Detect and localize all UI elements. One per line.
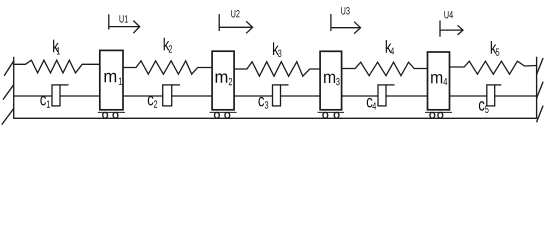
label m2 <box>216 73 233 85</box>
label u2 <box>231 10 239 17</box>
wheel <box>103 112 108 118</box>
label k1 <box>53 40 60 55</box>
label c3 <box>258 97 268 109</box>
wheel <box>334 112 339 118</box>
mass m3 <box>318 51 345 118</box>
spring k5 <box>450 61 537 74</box>
mass m2 <box>210 51 237 118</box>
arrow u3 <box>331 14 361 34</box>
arrow u2 <box>219 14 252 33</box>
label u4 <box>444 11 453 18</box>
damper c5 <box>450 85 537 106</box>
arrow u4 <box>440 21 463 37</box>
label u3 <box>341 7 349 14</box>
spring k3 <box>234 62 320 76</box>
left wall <box>2 57 14 125</box>
label c2 <box>148 96 157 108</box>
damper c1 <box>14 85 100 106</box>
right wall <box>537 57 544 123</box>
label m1 <box>105 73 123 85</box>
label c1 <box>40 96 50 108</box>
wheel <box>225 112 230 118</box>
label c4 <box>367 98 376 110</box>
damper c3 <box>234 85 320 106</box>
arrow u1 <box>109 14 140 33</box>
label c5 <box>479 101 489 113</box>
damper c4 <box>342 85 428 106</box>
label k3 <box>273 42 281 57</box>
wheel <box>438 112 443 118</box>
wheel <box>215 112 220 118</box>
mass m1 <box>98 50 125 118</box>
label m4 <box>431 74 447 85</box>
spring k2 <box>123 61 212 74</box>
label k4 <box>386 40 394 55</box>
damper c2 <box>123 85 212 106</box>
spring k4 <box>342 62 428 75</box>
wheel <box>430 112 435 118</box>
ground <box>13 117 537 119</box>
label u1 <box>119 15 127 22</box>
label m3 <box>324 74 340 86</box>
label k5 <box>491 41 499 56</box>
wheel <box>113 112 118 118</box>
label k2 <box>164 38 172 53</box>
mass m4 <box>425 52 452 118</box>
spring k1 <box>14 60 100 73</box>
wheel <box>323 112 328 118</box>
